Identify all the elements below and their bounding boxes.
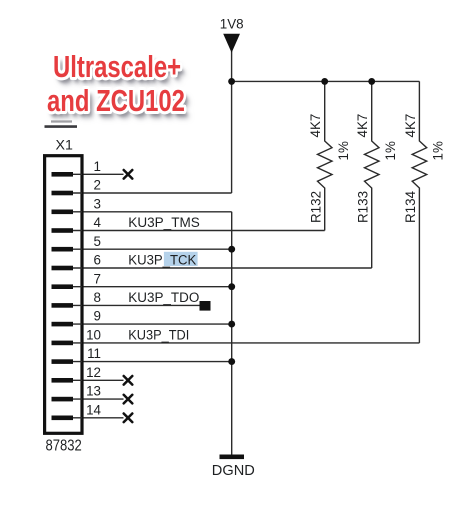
svg-text:14: 14 xyxy=(86,402,101,417)
svg-text:5: 5 xyxy=(94,234,101,249)
svg-text:KU3P_TDO: KU3P_TDO xyxy=(128,290,199,305)
svg-text:4K7: 4K7 xyxy=(403,114,418,138)
svg-text:13: 13 xyxy=(86,384,101,399)
svg-text:12: 12 xyxy=(86,365,101,380)
svg-text:1: 1 xyxy=(94,159,101,174)
svg-text:1V8: 1V8 xyxy=(220,17,244,32)
svg-text:1%: 1% xyxy=(431,141,446,160)
svg-text:KU3P_TCK: KU3P_TCK xyxy=(128,253,196,268)
svg-text:87832: 87832 xyxy=(46,438,82,455)
svg-text:R132: R132 xyxy=(308,191,323,223)
svg-text:11: 11 xyxy=(87,346,101,361)
svg-text:3: 3 xyxy=(94,196,101,211)
svg-text:9: 9 xyxy=(94,309,101,324)
svg-text:4: 4 xyxy=(94,215,102,230)
svg-text:8: 8 xyxy=(94,290,101,305)
svg-text:2: 2 xyxy=(94,178,101,193)
svg-text:DGND: DGND xyxy=(212,463,255,479)
svg-text:1%: 1% xyxy=(383,141,398,160)
svg-text:7: 7 xyxy=(94,271,101,286)
svg-text:10: 10 xyxy=(86,328,101,343)
svg-text:4K7: 4K7 xyxy=(355,114,370,138)
svg-text:6: 6 xyxy=(94,253,101,268)
svg-text:R133: R133 xyxy=(355,191,370,223)
svg-text:KU3P_TDI: KU3P_TDI xyxy=(128,328,189,343)
svg-text:KU3P_TMS: KU3P_TMS xyxy=(128,215,200,230)
svg-text:X1: X1 xyxy=(56,138,73,154)
svg-text:R134: R134 xyxy=(403,190,418,223)
svg-text:4K7: 4K7 xyxy=(308,114,323,138)
svg-text:1%: 1% xyxy=(336,141,351,160)
